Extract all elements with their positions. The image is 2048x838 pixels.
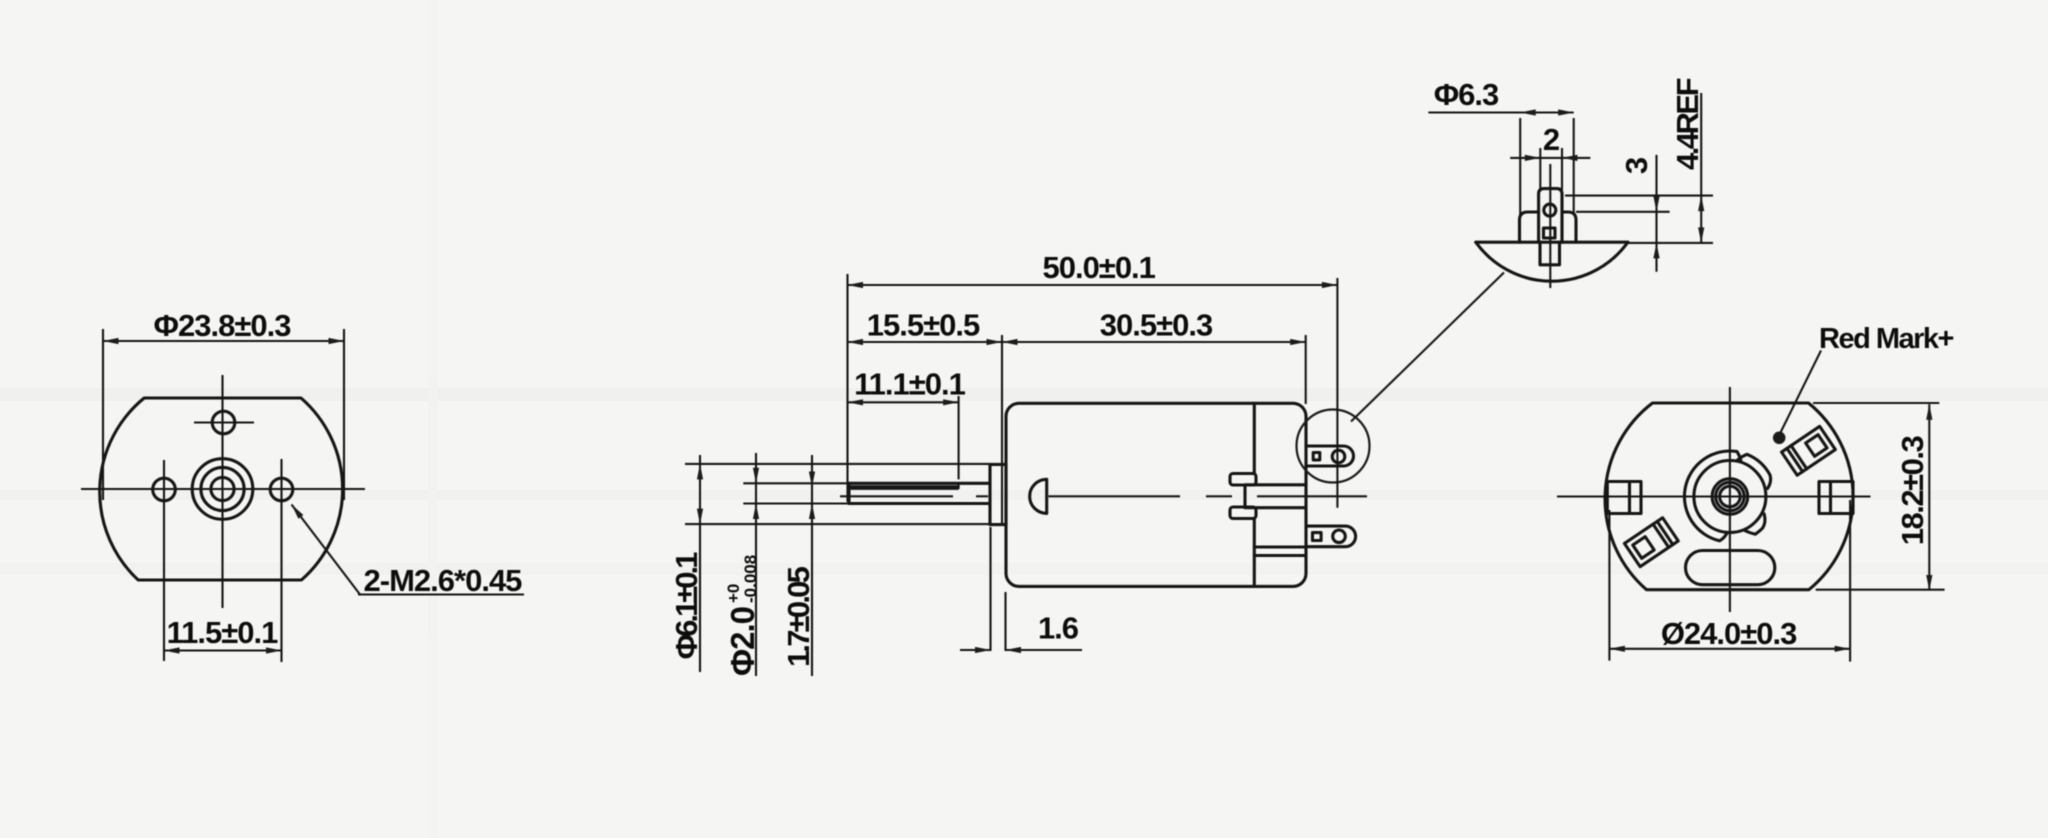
svg-text:Φ6.1±0.1: Φ6.1±0.1 <box>669 552 704 659</box>
svg-text:Red Mark+: Red Mark+ <box>1819 323 1954 355</box>
svg-text:18.2±0.3: 18.2±0.3 <box>1895 436 1930 546</box>
endcap dome section line <box>1476 241 1628 244</box>
shaft outline <box>849 482 990 485</box>
top mounting hole <box>212 411 235 434</box>
endcap dome arc <box>1476 242 1628 281</box>
endcap bottom strips <box>1254 545 1306 548</box>
svg-text:15.5±0.5: 15.5±0.5 <box>867 308 980 343</box>
svg-text:50.0±0.1: 50.0±0.1 <box>1042 250 1155 285</box>
vertical centerline <box>221 375 223 608</box>
front view body outline <box>100 398 343 580</box>
svg-text:11.5±0.1: 11.5±0.1 <box>167 615 278 650</box>
center bearing rings <box>192 459 253 520</box>
shaft flat (dark) <box>850 485 959 490</box>
svg-text:2: 2 <box>1543 122 1559 157</box>
dim 1.7±0.05 vertical <box>811 455 813 676</box>
right screw hole M2.6 <box>270 478 293 501</box>
upper terminal side view <box>1307 446 1354 466</box>
svg-text:4.4REF: 4.4REF <box>1670 78 1705 170</box>
retainer arc top right <box>1738 454 1771 488</box>
terminal platform boss <box>1520 212 1577 242</box>
svg-text:11.1±0.1: 11.1±0.1 <box>854 367 965 402</box>
svg-text:1.7±0.05: 1.7±0.05 <box>781 566 816 667</box>
terminal tab lower part <box>1540 242 1560 265</box>
endcap seam line <box>1253 403 1256 473</box>
extension lines for Φ2.0 <box>743 482 849 484</box>
dim 18.2±0.3 <box>1813 402 1939 404</box>
shaft rings <box>1716 482 1744 510</box>
brush tab lower <box>1230 507 1256 519</box>
horizontal centerline <box>1557 495 1871 497</box>
retainer arc bottom right <box>1745 514 1765 534</box>
brush tab upper <box>1230 474 1256 486</box>
svg-text:1.6: 1.6 <box>1038 611 1079 646</box>
leader to detail view <box>1351 273 1504 422</box>
red mark dot <box>1773 432 1786 445</box>
terminal lower left <box>1624 518 1678 567</box>
svg-text:3: 3 <box>1619 157 1654 174</box>
svg-text:Φ2.0: Φ2.0 <box>724 607 761 676</box>
left screw hole M2.6 <box>153 478 176 501</box>
bearing boss circle <box>1694 461 1766 533</box>
svg-text:-0.008: -0.008 <box>741 555 760 603</box>
svg-text:30.5±0.3: 30.5±0.3 <box>1100 308 1213 343</box>
front bearing collar <box>990 464 1006 524</box>
dim Φ23.8±0.3 <box>102 329 104 500</box>
dim 11.1±0.1 <box>958 396 960 479</box>
svg-text:2-M2.6*0.45: 2-M2.6*0.45 <box>364 563 523 598</box>
brush block <box>1245 485 1306 508</box>
dim Φ6.1±0.1 vertical <box>699 455 701 672</box>
bottom vent slot <box>1686 551 1775 585</box>
svg-text:Φ23.8±0.3: Φ23.8±0.3 <box>154 308 292 343</box>
retainer arc big left <box>1684 451 1740 541</box>
dim Φ2.0 vertical <box>755 453 757 676</box>
shaft end half-round inside body <box>1030 479 1047 513</box>
svg-text:Ø24.0±0.3: Ø24.0±0.3 <box>1661 616 1797 651</box>
svg-text:Φ6.3: Φ6.3 <box>1434 77 1499 112</box>
ref lines right <box>1565 195 1713 197</box>
leader 2-M2.6*0.45 <box>292 505 361 595</box>
dim Φ6.3 <box>1519 118 1521 215</box>
extension lines for Φ6.1 <box>685 463 990 465</box>
terminal round hole <box>1544 204 1556 216</box>
rear view body outline <box>1605 403 1853 590</box>
motor body side view <box>1006 403 1306 586</box>
terminal upper right <box>1782 426 1836 475</box>
leader Red Mark+ <box>1781 351 1822 433</box>
axis centerline <box>840 495 953 497</box>
lower terminal side view <box>1307 526 1356 547</box>
detail circle <box>1297 410 1370 483</box>
dim 15.5±0.5 / 30.5±0.3 <box>1001 335 1003 525</box>
right mounting tab <box>1819 482 1853 514</box>
terminal tab <box>1539 189 1562 243</box>
dim 3 <box>1655 155 1657 272</box>
dim 50.0±0.1 <box>846 274 848 502</box>
dim 11.5±0.1 <box>164 649 282 651</box>
dim 1.6 <box>989 527 991 651</box>
tab centerline <box>1549 164 1551 288</box>
terminal square hole <box>1544 228 1556 238</box>
horizontal centerline <box>81 488 365 490</box>
dim Ø24.0±0.3 <box>1608 510 1610 661</box>
vertical centerline <box>1729 387 1731 612</box>
dim 4.4REF <box>1700 93 1702 243</box>
dim 2 <box>1539 148 1541 190</box>
left mounting tab <box>1607 482 1641 514</box>
